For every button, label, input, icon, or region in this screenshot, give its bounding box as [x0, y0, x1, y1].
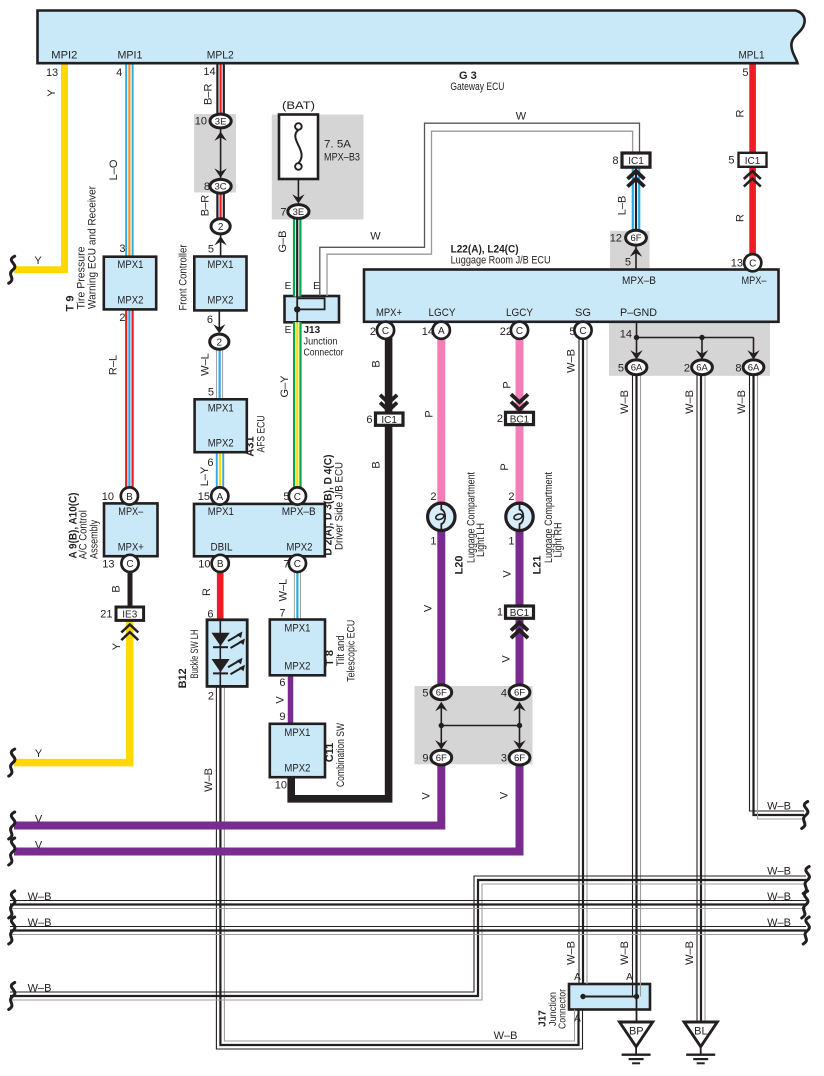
ECU A9(B) A10(C) A/C Control Assembly [67, 492, 157, 559]
svg-text:B–R: B–R [200, 195, 212, 216]
svg-text:P–GND: P–GND [620, 307, 657, 319]
break left W-B 930 [9, 917, 15, 944]
connector 3C pin 8 [204, 179, 231, 193]
svg-text:A: A [574, 1014, 581, 1025]
connector 6F pin 5 [422, 685, 451, 700]
ECU T9 Tire Pressure Warning ECU and Receiver [65, 186, 157, 324]
svg-text:2: 2 [217, 338, 223, 349]
break right W-B 930 [803, 917, 809, 944]
junction dot P-GND left [634, 335, 639, 340]
svg-text:2: 2 [218, 222, 224, 233]
svg-text:4: 4 [501, 688, 507, 700]
break right W-B 815 [802, 802, 808, 829]
svg-text:Y: Y [46, 89, 58, 97]
svg-text:W–B: W–B [736, 390, 748, 414]
J17 internal junction line and dots [580, 994, 639, 999]
svg-text:R: R [735, 214, 747, 222]
svg-text:W–L: W–L [278, 579, 290, 602]
break left Y bottom [9, 749, 15, 776]
connector 3E pin 10 with grey group arrows [195, 114, 231, 179]
svg-text:1: 1 [430, 536, 436, 548]
svg-text:A: A [574, 972, 581, 983]
svg-text:Y: Y [111, 642, 123, 650]
svg-text:Luggage Room J/B ECU: Luggage Room J/B ECU [451, 255, 551, 267]
svg-text:LGCY: LGCY [506, 307, 534, 319]
wire V from connector 6F pin 9 to left break [14, 764, 441, 826]
svg-text:3: 3 [501, 753, 507, 765]
connector 6F group internal wiring [435, 702, 526, 750]
svg-text:Connector: Connector [304, 348, 345, 359]
ground BL [684, 1022, 717, 1063]
svg-text:Light LH: Light LH [475, 523, 487, 557]
svg-text:W–B: W–B [494, 1030, 518, 1042]
svg-text:E: E [313, 281, 320, 292]
svg-text:R–L: R–L [108, 355, 120, 375]
svg-text:MPX1: MPX1 [284, 623, 310, 635]
svg-text:AFS ECU: AFS ECU [256, 415, 268, 452]
svg-text:IE3: IE3 [122, 610, 137, 621]
svg-text:MPL1: MPL1 [739, 50, 765, 62]
connector IC1 pin 5 on MPL1 branch [728, 153, 766, 187]
svg-text:6F: 6F [436, 753, 447, 764]
svg-text:6F: 6F [514, 688, 525, 699]
svg-text:W: W [516, 111, 527, 123]
svg-text:6F: 6F [436, 688, 447, 699]
svg-text:13: 13 [731, 258, 743, 270]
svg-text:6: 6 [279, 677, 285, 689]
svg-text:E: E [285, 325, 292, 336]
svg-text:Front Controller: Front Controller [178, 244, 190, 310]
svg-text:2: 2 [508, 491, 514, 503]
svg-text:Y: Y [35, 748, 43, 760]
svg-text:J13: J13 [304, 325, 321, 336]
ECU D2(A) D3(B) D4(C) Driver Side J/B ECU [194, 454, 346, 556]
svg-text:MPX2: MPX2 [117, 295, 143, 307]
svg-text:B: B [371, 360, 383, 367]
svg-text:R: R [201, 588, 213, 596]
connector BC1 pin 1 [497, 606, 534, 638]
svg-text:IC1: IC1 [628, 156, 644, 167]
pin circle C22 on Luggage J/B LGCY [500, 322, 528, 339]
svg-text:BC1: BC1 [510, 608, 530, 619]
svg-text:MPX–B3: MPX–B3 [324, 152, 360, 164]
lamp L20 Luggage Compartment Light LH [428, 472, 487, 574]
svg-text:V: V [423, 604, 435, 612]
svg-text:LGCY: LGCY [429, 307, 457, 319]
svg-text:6F: 6F [514, 753, 525, 764]
svg-text:10: 10 [198, 559, 210, 571]
svg-text:21: 21 [100, 609, 112, 621]
wire B thick from IC1 pin 6 up to Luggage J/B MPX+ pin 2 [385, 337, 393, 413]
svg-text:W–B: W–B [28, 917, 52, 929]
svg-text:5: 5 [728, 155, 734, 167]
wire V from lamp L20 to connector 6F pin 5 [437, 530, 445, 686]
svg-text:W–B: W–B [684, 390, 696, 414]
svg-text:6A: 6A [631, 363, 643, 374]
svg-text:2: 2 [208, 691, 214, 703]
svg-text:Y: Y [34, 255, 42, 267]
grey box 6F(12) connector [610, 231, 650, 270]
svg-text:5: 5 [283, 491, 289, 503]
svg-text:A: A [438, 326, 445, 337]
svg-text:(BAT): (BAT) [282, 100, 315, 112]
connector 6A pin 8 with arrow [735, 350, 764, 375]
wire B-R from G3 MPL2 pin 14 to connector 3E [216, 63, 225, 116]
svg-text:P: P [423, 410, 435, 417]
svg-text:5: 5 [625, 257, 631, 269]
svg-text:W–B: W–B [619, 390, 631, 414]
svg-text:3: 3 [119, 243, 125, 255]
break right W-B 904 [802, 891, 808, 918]
break left W-B 996 [9, 983, 15, 1010]
svg-text:MPX1: MPX1 [284, 727, 310, 739]
connector BC1 pin 2 [497, 394, 534, 425]
wire P from Luggage J/B LGCY pin 22 to BC1 pin 2 [516, 337, 524, 413]
svg-text:6: 6 [207, 314, 213, 326]
svg-text:B: B [126, 492, 133, 503]
svg-text:10: 10 [102, 491, 114, 503]
junction connector J13 box [285, 296, 340, 322]
svg-text:10: 10 [195, 116, 207, 128]
svg-text:5: 5 [742, 67, 748, 79]
pin circle B10 on Driver Side J/B bottom [198, 555, 229, 572]
wire R from IC1 pin 5 to Luggage J/B MPX- pin 13 [749, 167, 756, 256]
grey box fuse MPX-B3 [272, 115, 364, 220]
wire W-L from Driver Side J/B MPX2 pin 7 to T8 pin 7 [294, 572, 301, 620]
svg-text:L21: L21 [531, 556, 543, 575]
wire R from Driver Side J/B DBIL pin 10 to B12 [217, 572, 224, 620]
connector 6F pin 4 [501, 685, 530, 700]
connector IC1 pin 6 on thick B wire [366, 395, 403, 426]
svg-text:W: W [370, 231, 381, 243]
wire L-Y from AFS ECU pin 6 to Driver Side J/B pin 15 [216, 452, 224, 488]
connector 2 on Front Controller branch [208, 334, 229, 398]
wire W-B horizontal full width lower [10, 927, 806, 935]
svg-text:MPX2: MPX2 [284, 763, 310, 775]
svg-text:Driver Side J/B ECU: Driver Side J/B ECU [334, 462, 346, 550]
pin circle C2 on Luggage J/B MPX+ [370, 322, 394, 339]
wire W-B horizontal from left break rising to right break [10, 876, 806, 1000]
svg-text:MPX1: MPX1 [208, 506, 234, 518]
svg-text:MPX2: MPX2 [207, 295, 233, 307]
svg-text:10: 10 [275, 780, 287, 792]
switch B12 Buckle SW LH with LEDs [177, 609, 247, 703]
svg-text:B: B [371, 461, 383, 468]
svg-text:MPI1: MPI1 [118, 50, 143, 62]
wire V from lamp L21 to BC1 pin 1 [516, 530, 524, 607]
svg-text:22: 22 [500, 326, 512, 338]
wire L-B from IC1 pin 8 to connector 6F pin 12 [632, 167, 641, 231]
svg-text:2: 2 [497, 413, 503, 425]
wire W-B from B12 pin 2 to J17 lower pin A [216, 686, 582, 1049]
wire L-O from G3 MPI1 pin 4 to T9 pin 3 [125, 63, 133, 257]
svg-text:9: 9 [279, 711, 285, 723]
pin circle B10 on A/C assembly [102, 487, 138, 504]
svg-text:L–O: L–O [108, 159, 120, 180]
svg-text:Connector: Connector [558, 988, 569, 1029]
wire B from A/C assembly pin 13 to IE3 [128, 572, 133, 607]
svg-text:Warning ECU and Receiver: Warning ECU and Receiver [87, 186, 99, 309]
svg-text:1: 1 [497, 607, 503, 619]
svg-text:C: C [126, 559, 133, 570]
wire W-L from connector 2 to AFS ECU pin 5 [216, 349, 223, 400]
svg-text:MPX1: MPX1 [208, 403, 234, 415]
svg-text:15: 15 [198, 491, 210, 503]
wire P from BC1 pin 2 to lamp L21 [516, 424, 524, 504]
svg-text:B12: B12 [177, 668, 189, 688]
connector 3E pin 7 [280, 205, 309, 219]
svg-text:W–B: W–B [767, 801, 791, 813]
wire G-Y from J13 to Driver Side J/B pin 5 [293, 322, 302, 488]
svg-text:2: 2 [684, 363, 690, 375]
svg-text:5: 5 [618, 363, 624, 375]
svg-text:5: 5 [208, 387, 214, 399]
svg-text:5: 5 [208, 244, 214, 256]
junction connector J17 labels [538, 972, 634, 1029]
svg-text:13: 13 [102, 559, 114, 571]
svg-text:14: 14 [203, 66, 215, 78]
svg-text:5: 5 [569, 326, 575, 338]
wire R from G3 MPL1 pin 5 to IC1 pin 5 [749, 63, 756, 153]
svg-text:14: 14 [620, 329, 632, 341]
wire B thick from C11 pin 10 to IC1 pin 6 [291, 425, 388, 799]
svg-text:IC1: IC1 [745, 156, 761, 167]
svg-text:MPX1: MPX1 [207, 259, 233, 271]
svg-text:MPX–B: MPX–B [282, 506, 316, 518]
svg-text:MPX–: MPX– [742, 275, 768, 287]
lamp L21 Luggage Compartment Light RH [506, 472, 565, 574]
svg-text:1: 1 [508, 536, 514, 548]
pin circle A15 on Driver Side J/B [198, 487, 229, 504]
grey box P-GND 6A connectors [609, 322, 770, 376]
svg-text:V: V [35, 840, 43, 852]
connector 6A pin 5 with arrow [618, 350, 647, 375]
connector 6F pin 12 with arrow to MPX-B [610, 230, 647, 268]
svg-text:Combination SW: Combination SW [335, 723, 347, 787]
connector 6F pin 9 [422, 750, 451, 765]
svg-text:V: V [501, 655, 513, 663]
svg-text:C: C [516, 326, 523, 337]
svg-text:E: E [285, 281, 292, 292]
svg-text:3E: 3E [293, 207, 305, 218]
wire W from J13 to IC1 pin 8 [320, 123, 640, 296]
connector 6A pin 2 with arrow [684, 350, 713, 375]
svg-text:W–B: W–B [566, 349, 578, 373]
svg-text:W–B: W–B [28, 891, 52, 903]
svg-text:7: 7 [279, 608, 285, 620]
svg-text:2: 2 [370, 326, 376, 338]
svg-text:C: C [294, 492, 301, 503]
connector IE3 pin 21 [100, 607, 143, 640]
svg-text:V: V [275, 696, 287, 704]
svg-text:6A: 6A [748, 363, 760, 374]
svg-text:4: 4 [116, 67, 122, 79]
wire Y from G3 MPI2 pin 13 to left break [14, 63, 65, 270]
svg-text:V: V [421, 792, 433, 800]
svg-text:P: P [499, 463, 511, 470]
svg-text:B: B [217, 559, 224, 570]
ground BP [620, 1022, 653, 1063]
pin circle C13 on Luggage J/B MPX- [731, 254, 762, 271]
svg-text:C: C [749, 259, 756, 270]
svg-text:W–B: W–B [203, 768, 215, 792]
ECU L22(A) L24(C) Luggage Room J/B ECU bar [364, 244, 779, 341]
wire P-GND branch lines with junction dots [637, 322, 754, 356]
svg-text:8: 8 [204, 181, 210, 193]
pin circle C7 on Driver Side J/B bottom [283, 555, 306, 572]
svg-text:C: C [294, 559, 301, 570]
break left W-B 904 [9, 891, 15, 918]
svg-text:W–L: W–L [200, 353, 212, 376]
break left V1 [9, 812, 15, 839]
switch C11 Combination SW [270, 711, 347, 792]
pin circle C13 on A/C assembly [102, 555, 138, 572]
fuse 7.5A MPX-B3 (BAT) [279, 100, 360, 204]
svg-text:MPX2: MPX2 [208, 438, 234, 450]
svg-text:A: A [216, 492, 223, 503]
svg-text:G–Y: G–Y [279, 375, 291, 398]
svg-text:8: 8 [612, 155, 618, 167]
svg-text:9: 9 [422, 753, 428, 765]
svg-text:BL: BL [694, 1026, 707, 1038]
svg-text:2: 2 [119, 312, 125, 324]
break right W-B 880 [803, 867, 809, 894]
svg-text:MPX–: MPX– [118, 506, 144, 518]
svg-text:W–B: W–B [767, 917, 791, 929]
wire P from Luggage J/B LGCY pin 14 to lamp L20 [437, 337, 445, 504]
svg-text:3C: 3C [215, 182, 227, 193]
svg-text:C: C [579, 326, 586, 337]
junction dot P-GND mid [699, 335, 704, 340]
svg-text:12: 12 [610, 233, 622, 245]
svg-text:7: 7 [283, 559, 289, 571]
svg-text:6F: 6F [630, 233, 641, 244]
wire W-B from connector 6A pin 2 to BL ground [697, 375, 705, 1022]
svg-text:5: 5 [422, 688, 428, 700]
svg-text:G–B: G–B [277, 230, 289, 252]
svg-text:Gateway ECU: Gateway ECU [450, 81, 504, 93]
svg-text:SG: SG [575, 307, 591, 319]
svg-text:Buckle SW LH: Buckle SW LH [189, 629, 201, 678]
svg-text:J17: J17 [538, 1010, 549, 1027]
wire R-L from T9 pin 2 to A/C assembly pin 10 [125, 309, 134, 489]
wire W-B horizontal full width upper [10, 901, 806, 909]
svg-text:A: A [626, 972, 633, 983]
svg-text:13: 13 [46, 67, 58, 79]
svg-text:2: 2 [430, 491, 436, 503]
svg-text:V: V [35, 814, 43, 826]
svg-text:Telescopic ECU: Telescopic ECU [346, 620, 358, 682]
svg-text:Junction: Junction [304, 337, 338, 348]
svg-text:7: 7 [280, 207, 286, 219]
ECU A31 AFS ECU [195, 399, 268, 469]
svg-text:MPX2: MPX2 [286, 542, 312, 554]
ECU Front Controller [178, 244, 247, 333]
svg-text:V: V [499, 791, 511, 799]
svg-text:MPX1: MPX1 [117, 259, 143, 271]
svg-text:P: P [502, 381, 514, 388]
svg-text:W–B: W–B [28, 983, 52, 995]
svg-text:IC1: IC1 [381, 415, 397, 426]
wire V from BC1 pin 1 to connector 6F pin 4 [516, 618, 524, 687]
grey box 3E/3C connector group [194, 114, 236, 193]
svg-text:DBIL: DBIL [211, 542, 233, 554]
svg-text:W–B: W–B [619, 941, 631, 965]
wire Y from IE3 to left break [14, 621, 130, 763]
svg-text:MPX2: MPX2 [284, 661, 310, 673]
svg-text:7. 5A: 7. 5A [324, 139, 352, 151]
svg-text:R: R [735, 109, 747, 117]
svg-text:MPX+: MPX+ [376, 307, 402, 319]
pin circle A14 on Luggage J/B LGCY [422, 322, 450, 339]
wire G-B from fuse connector 3E pin 7 to J13 [293, 218, 302, 296]
wire V from T8 pin 6 to C11 pin 9 [288, 675, 294, 724]
svg-text:BC1: BC1 [510, 414, 530, 425]
svg-text:6A: 6A [696, 363, 708, 374]
grey box 6F lamp connectors [415, 686, 533, 764]
ECU G3 Gateway ECU top bar [38, 11, 805, 94]
junction connector J17 box [569, 984, 650, 1010]
break left Y top [9, 256, 15, 283]
svg-text:L–B: L–B [617, 196, 629, 216]
break left V2 [9, 838, 15, 865]
wire W-B from connector 6A pin 8 to right break [750, 375, 805, 819]
svg-text:V: V [502, 570, 514, 578]
svg-text:8: 8 [735, 363, 741, 375]
svg-text:MPX–B: MPX–B [622, 275, 656, 287]
connector IC1 pin 8 [612, 153, 650, 187]
svg-text:Assembly: Assembly [88, 519, 100, 558]
svg-text:BP: BP [629, 1026, 644, 1038]
wire V from connector 6F pin 3 to left break [14, 764, 520, 852]
wire stub 6F pin 5 to Luggage J/B MPX-B [635, 245, 637, 270]
svg-text:MPX+: MPX+ [118, 542, 144, 554]
svg-text:L20: L20 [453, 556, 465, 575]
connector 2 on MPL2 branch with arrow to Front Controller pin 5 [208, 219, 230, 257]
svg-text:3E: 3E [215, 116, 227, 127]
svg-text:14: 14 [422, 326, 434, 338]
svg-text:6: 6 [207, 609, 213, 621]
junction connector J13 labels [285, 281, 344, 359]
svg-text:W–B: W–B [684, 941, 696, 965]
wire W-B from connector 6A pin 5 through J17 to BP ground [633, 375, 641, 1022]
svg-text:6: 6 [366, 414, 372, 426]
svg-text:W–B: W–B [767, 866, 791, 878]
svg-text:MPL2: MPL2 [207, 50, 234, 62]
svg-text:L–Y: L–Y [199, 466, 211, 486]
pin circle C5 on Driver Side J/B top [283, 487, 306, 504]
svg-text:W–B: W–B [566, 941, 578, 965]
ECU T8 Tilt and Telescopic ECU [270, 608, 358, 690]
svg-text:Light RH: Light RH [553, 522, 565, 557]
svg-text:C: C [382, 326, 389, 337]
svg-text:MPI2: MPI2 [51, 50, 77, 62]
wire B-R from connector 3C to connector 2 [216, 192, 225, 220]
wire W-B from Luggage J/B SG pin 5 to J17 pin A [579, 337, 587, 984]
pin circle C5 on Luggage J/B SG [569, 322, 591, 339]
svg-text:B: B [111, 585, 123, 592]
connector 6F pin 3 [501, 750, 530, 765]
svg-text:B–R: B–R [203, 84, 215, 105]
svg-text:W–B: W–B [767, 891, 791, 903]
